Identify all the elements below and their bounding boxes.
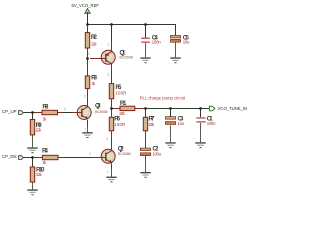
svg-text:1: 1 — [107, 42, 109, 46]
svg-text:3: 3 — [84, 95, 86, 99]
svg-text:2: 2 — [64, 107, 66, 111]
svg-text:22k: 22k — [91, 41, 97, 46]
svg-text:22k: 22k — [119, 111, 125, 116]
svg-text:R4: R4 — [42, 148, 49, 155]
svg-text:R8: R8 — [42, 103, 49, 110]
svg-text:VCO_TUNE_IN: VCO_TUNE_IN — [218, 106, 248, 111]
svg-text:10u: 10u — [178, 121, 185, 126]
svg-text:100n: 100n — [207, 121, 216, 126]
svg-text:CP_DN: CP_DN — [2, 154, 17, 159]
svg-text:22k: 22k — [36, 128, 42, 133]
svg-text:6V_VCO_REF: 6V_VCO_REF — [72, 3, 100, 8]
svg-text:22k: 22k — [149, 122, 155, 127]
svg-text:100u: 100u — [152, 151, 161, 156]
svg-text:10u: 10u — [183, 40, 190, 45]
svg-text:PLL charge pump circuit: PLL charge pump circuit — [140, 95, 186, 100]
svg-text:1: 1 — [107, 170, 109, 174]
svg-text:2: 2 — [88, 52, 90, 56]
svg-text:R1: R1 — [120, 100, 127, 107]
svg-text:BC846B: BC846B — [118, 152, 131, 156]
svg-text:100n: 100n — [152, 40, 161, 45]
svg-text:BC846B: BC846B — [95, 110, 108, 114]
svg-text:CP_UP: CP_UP — [2, 109, 17, 114]
svg-text:22k: 22k — [36, 172, 43, 177]
svg-text:Q3: Q3 — [95, 103, 101, 110]
svg-text:2: 2 — [89, 152, 91, 156]
svg-text:1: 1 — [84, 127, 86, 131]
svg-text:2: 2 — [108, 73, 110, 77]
svg-text:3: 3 — [106, 137, 108, 141]
svg-text:100R: 100R — [114, 122, 125, 127]
svg-text:100R: 100R — [115, 91, 126, 96]
svg-text:R2: R2 — [91, 34, 98, 41]
svg-text:BC856B: BC856B — [120, 55, 134, 59]
